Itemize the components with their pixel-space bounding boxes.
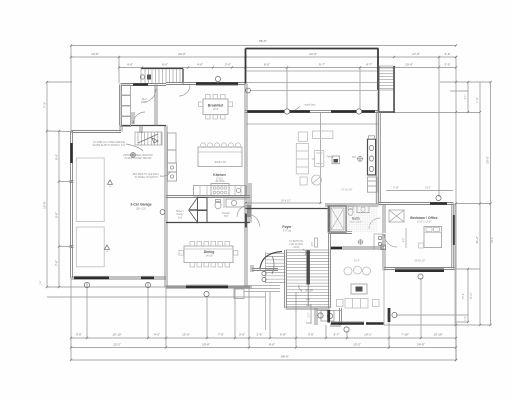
kitchen sink [236,188,240,192]
dining south window [186,286,228,288]
door jamb mark [315,238,318,247]
deck stair east [379,66,395,90]
powder east wall [248,183,250,223]
pantry bifold door 2 [198,211,208,223]
svg-text:Kitchen: Kitchen [213,173,225,177]
svg-text:Foyer: Foyer [282,225,292,229]
breakfast north wall [166,82,246,84]
mud north window [133,83,148,85]
bath south wall [329,231,352,233]
kitchen south counter [194,186,247,197]
stair treads [286,251,330,253]
family round chairs [344,267,352,275]
powder vanity [226,199,247,207]
kitchen island [198,147,242,167]
svg-text:4'-10": 4'-10" [393,188,399,190]
svg-text:SLOPE SLAB TO DOOR U.N.O.: SLOPE SLAB TO DOOR U.N.O. [92,144,125,147]
svg-text:17'x12': 17'x12' [216,179,224,181]
left vertical dimension line 2 [58,131,60,287]
svg-text:20'-8": 20'-8" [202,343,210,347]
svg-text:W/ PANEL TO MATCH: W/ PANEL TO MATCH [134,176,157,179]
ceiling fan symbol [358,156,363,161]
svg-text:3'-0": 3'-0" [76,333,82,337]
garage north wall [72,130,122,132]
svg-text:10'-9": 10'-9" [405,63,413,67]
svg-text:Pantry: Pantry [177,213,184,216]
deck north edge [246,48,379,50]
bedroom north window [430,202,447,204]
svg-text:9'-0" clg: 9'-0" clg [283,231,292,233]
family fan symbol [358,240,362,244]
svg-text:7'-0": 7'-0" [218,333,224,337]
garage door panel 2 [76,227,104,267]
svg-text:17'-5": 17'-5" [412,52,420,56]
shower [329,206,346,232]
bench box [321,311,334,322]
svg-text:12'-0": 12'-0" [354,261,360,263]
mud inner wall [154,85,156,126]
svg-text:REF DWR TO CLR WALL: REF DWR TO CLR WALL [133,173,160,176]
deck west edge [245,49,247,84]
svg-text:34'-0": 34'-0" [492,237,494,243]
entry stair outside top [141,68,183,70]
left dim connectors [47,81,72,83]
svg-text:(28' x 22'): (28' x 22') [136,209,146,211]
svg-text:UP 19R: UP 19R [305,291,313,293]
right dim connectors [440,81,491,83]
bedroom closet [389,210,404,222]
great room sofa top [313,131,333,139]
garage side tag [160,210,165,215]
hall west wall of bedroom [382,205,384,233]
foyer dim line [246,202,321,204]
svg-text:36" RNG: 36" RNG [215,181,224,183]
stair east edge [328,233,330,308]
kitchen south wall [166,195,250,197]
right vertical dims inner [467,82,469,112]
family west window bar [327,310,330,323]
porch curve [260,252,282,270]
bed [424,227,442,248]
breakfast window tag [215,76,220,81]
great room sill line [246,123,378,125]
svg-text:15'-2": 15'-2" [463,293,465,299]
svg-text:2'-8": 2'-8" [312,242,314,247]
bedroom north wall [379,202,454,204]
svg-text:86'-6": 86'-6" [281,355,289,359]
mud room west wall [119,85,121,126]
svg-text:12'-0" x 13'-0": 12'-0" x 13'-0" [417,222,431,224]
deck mid line [247,82,378,84]
patio east edge [454,269,456,326]
dining south wall [166,285,252,287]
great room sofa modules west [296,143,308,174]
svg-text:4'-7": 4'-7" [366,63,372,67]
great room north windows [247,110,284,112]
porch steps [244,285,280,287]
powder south wall [166,222,250,224]
pantry bifold door 1 [198,198,208,211]
bottom dimension line row2 [71,347,456,349]
porch edge vertical [265,292,267,330]
bedroom east window [453,215,455,245]
garage marker A1 [108,180,113,184]
closet under stairs [314,308,316,325]
svg-text:4'-7": 4'-7" [334,333,340,337]
nightstand [419,243,424,248]
bath west wall [327,205,329,233]
mud entry door arcs [143,89,156,102]
right vertical dimension main [455,57,457,360]
svg-text:Stair: Stair [306,298,311,301]
svg-text:5'-0": 5'-0" [55,212,59,218]
bottom square chair [300,177,307,185]
svg-text:Room: Room [141,102,147,104]
swivel chair circle [312,175,322,185]
svg-text:3'-10": 3'-10" [477,97,479,103]
foyer north wall [246,208,331,210]
breakfast table [203,99,228,115]
svg-text:TV: TV [312,159,315,161]
svg-text:Butler's: Butler's [176,210,184,213]
bottom dimension line row3 86-6 [71,359,456,361]
bedroom east wall [451,204,453,269]
svg-text:Bedroom / Office: Bedroom / Office [410,216,437,220]
entry door [245,214,247,228]
mud jog [119,126,121,132]
family east wall [382,248,384,271]
svg-text:16'-2": 16'-2" [425,188,431,190]
entry stair treads [144,69,146,83]
powder divider [223,197,225,209]
svg-text:24'-0": 24'-0" [178,52,186,56]
entry stair newel [140,75,144,79]
powder toilet [215,201,221,209]
svg-text:31'-2": 31'-2" [475,236,479,244]
svg-text:6'x6': 6'x6' [178,218,183,220]
svg-text:2 ND FLOOR: 2 ND FLOOR [289,244,303,246]
closet east jog [339,308,341,325]
svg-text:2'-9": 2'-9" [445,52,451,56]
svg-text:16'-0": 16'-0" [43,201,47,209]
family south tag [344,327,349,332]
svg-text:2'-6": 2'-6" [257,333,263,337]
svg-text:7'-10": 7'-10" [401,333,409,337]
svg-text:24'-0": 24'-0" [309,52,317,56]
garage door panel 1 [76,158,104,222]
dining window tag [204,291,209,296]
bedroom south window band [395,270,444,272]
left vertical dimension line 1 [46,82,48,287]
svg-text:7'-3": 7'-3" [43,102,47,108]
svg-text:(1'DN): (1'DN) [293,247,300,249]
svg-text:26'-10 1/2": 26'-10 1/2" [415,261,426,263]
cabinet below media [368,177,378,192]
family armchairs [337,300,344,307]
garage left wall window [70,143,72,163]
svg-text:IN MUD CLOSET BELOW: IN MUD CLOSET BELOW [125,158,153,160]
svg-text:1'-6": 1'-6" [465,316,467,321]
svg-text:6'-0": 6'-0" [162,63,168,67]
secondary flight [265,252,267,283]
family tv unit [351,284,367,294]
svg-text:Mud: Mud [142,99,147,101]
elevator symbols [374,234,383,249]
svg-text:13'-10": 13'-10" [433,333,442,337]
svg-text:9'-7": 9'-7" [319,63,325,67]
window tags great room [284,109,289,114]
stair top line [286,249,330,251]
mud room south wall [121,125,166,127]
kitchen west tall cabinets [168,133,177,150]
svg-text:1/2 BATH ON: 1/2 BATH ON [289,240,303,243]
mud inner jog [139,126,141,134]
bath floor hatch [330,206,377,232]
porch front wall [252,268,278,270]
svg-text:24'-0": 24'-0" [417,343,425,347]
svg-text:10' GWB CLG OVER GARAGE: 10' GWB CLG OVER GARAGE [93,141,126,144]
top dimension line row2 [71,56,456,58]
media wall unit [368,139,376,175]
svg-text:16'-6": 16'-6" [486,156,490,164]
deck inner line [247,70,378,72]
dining chairs top [190,242,195,246]
family west small dim [310,304,312,324]
deck stair east wall [393,66,395,113]
bottom dimension line row1 [71,337,456,339]
svg-text:6'-8": 6'-8" [280,333,286,337]
bedroom north tag [436,195,441,200]
stair center rail [307,250,310,285]
basement stair [135,132,162,145]
porch columns circles [262,271,266,275]
garage left wall [70,132,72,279]
svg-text:10'x8': 10'x8' [213,109,219,111]
extension lines bottom [70,278,72,360]
svg-text:wood deck: wood deck [305,105,317,107]
svg-text:5'x5': 5'x5' [224,216,229,218]
deck rail line [251,90,378,92]
svg-text:15'-10": 15'-10" [471,292,473,299]
svg-text:Breakfast: Breakfast [208,104,224,108]
garage window tags [84,282,89,287]
powder door arc [237,205,249,217]
curved arrow [272,256,274,274]
bath toilet [348,209,353,216]
svg-text:10'-1": 10'-1" [364,333,372,337]
bedroom top dim [386,190,453,192]
svg-text:PROVIDE SHELF AND ROD: PROVIDE SHELF AND ROD [123,154,153,157]
mud room cabinets [121,85,131,95]
sliding door [310,109,331,111]
kitchen tag [131,153,136,158]
family south wall windows [331,322,364,324]
kitchen wall ovens [168,163,177,172]
island stools [201,143,206,148]
svg-text:22'-2": 22'-2" [113,343,121,347]
svg-text:2'-0": 2'-0" [403,238,405,243]
svg-text:3'-5": 3'-5" [308,333,314,337]
great room armchair [298,132,307,141]
family sofa [345,299,368,309]
svg-text:8'-0": 8'-0" [269,343,275,347]
porch pier [234,289,244,299]
extension lines top [70,46,72,132]
garage south wall [72,276,167,278]
top dimension line row3 [119,67,456,69]
svg-text:3'-0": 3'-0" [309,313,311,318]
bedroom door arc [384,234,397,247]
deck stair west wall [378,66,380,113]
mud room north wall [121,83,167,85]
deck rail tag [246,88,251,93]
porch west jog [250,265,252,272]
stair south wall [286,306,331,308]
svg-text:14'x10': 14'x10' [205,256,213,258]
garage south windows [74,277,109,279]
dining table [184,246,233,263]
svg-text:2'-9": 2'-9" [445,63,451,67]
patio window bar [388,308,391,322]
svg-text:4'-0": 4'-0" [197,63,203,67]
kitchen east wall [244,84,246,288]
svg-text:Dining: Dining [204,250,215,254]
svg-text:2'-0": 2'-0" [465,95,467,100]
deck stair bottom wall [378,111,395,113]
bath north wall [325,203,379,205]
svg-text:10'-10": 10'-10" [112,333,121,337]
coffee table [315,151,324,167]
svg-text:36 EB CTR: 36 EB CTR [214,162,226,164]
svg-text:Family: Family [327,157,335,159]
svg-text:4'-0": 4'-0" [154,333,160,337]
svg-text:4'-0": 4'-0" [127,63,133,67]
media upper box [369,136,375,140]
breakfast chairs [206,95,211,99]
svg-text:13'-2": 13'-2" [353,343,361,347]
svg-text:Powder: Powder [222,212,230,215]
svg-text:8'-0": 8'-0" [264,63,270,67]
breakfast window [196,82,238,84]
family north wall [330,246,384,248]
dining chairs bottom [190,263,195,267]
svg-text:9'-6": 9'-6" [55,154,59,160]
bedroom south wall [384,267,455,269]
patio west edge [383,271,385,326]
svg-text:26'-8 1/2": 26'-8 1/2" [281,201,291,203]
deck east edge [377,49,379,91]
great room north wall [246,110,379,112]
family tag box [381,245,386,250]
svg-text:2'-0": 2'-0" [225,63,231,67]
stair west stringer [284,250,286,308]
great room east wall [375,112,377,204]
range [211,184,229,197]
bedroom inner dim [405,228,407,248]
svg-text:27'-10 1/2": 27'-10 1/2" [342,190,353,192]
fireplace icon [332,156,339,164]
svg-text:13'-9": 13'-9" [91,52,99,56]
svg-text:13'-0": 13'-0" [182,333,190,337]
garage wall joint marks [70,180,74,182]
bedroom south tag [418,274,423,279]
garage right wall [164,126,166,288]
top dimension line 86-6 [71,45,456,47]
bath door arc [369,218,380,229]
svg-text:3-Car Garage: 3-Car Garage [130,203,151,207]
svg-text:1'-6": 1'-6" [41,281,43,286]
garage marker A2 [105,245,110,249]
dining end chairs [179,251,183,256]
entry door opening [183,84,190,86]
svg-text:86'-6": 86'-6" [259,39,267,43]
bath vanity [357,206,369,213]
svg-text:7'-0": 7'-0" [55,260,59,266]
svg-text:3'-0": 3'-0" [239,333,245,337]
